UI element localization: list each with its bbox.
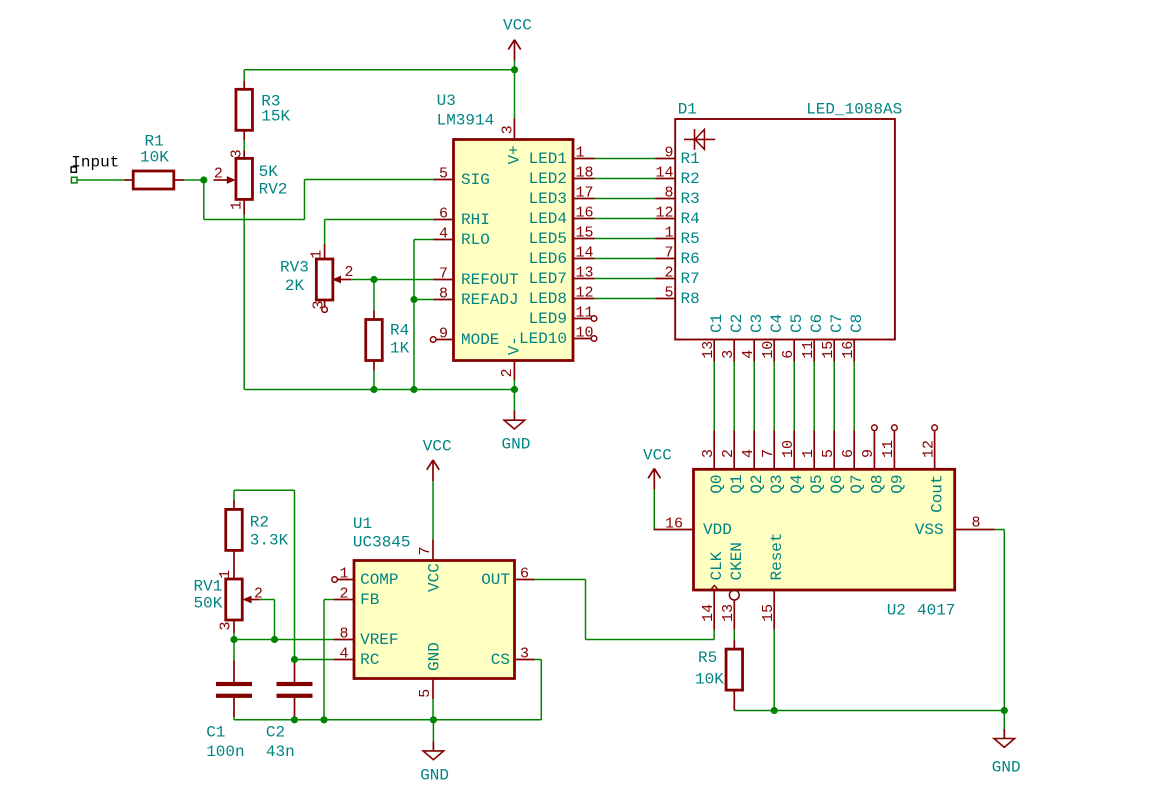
svg-text:6: 6 [520,565,529,582]
svg-text:2K: 2K [285,277,305,295]
svg-text:R2: R2 [250,514,269,532]
junction VCC/V+ [511,66,518,73]
svg-text:R5: R5 [698,649,717,667]
svg-text:4017: 4017 [917,602,955,620]
U2 pin 8 VSS [955,529,995,531]
svg-text:Q4: Q4 [788,474,806,493]
op-amp U1 UC3845 (PWM controller) [332,515,535,699]
power symbol VCC (top) [503,17,532,61]
D1 pin 7 R6 [656,244,700,268]
svg-text:VCC: VCC [643,447,672,465]
capacitor C2 (43n) [266,660,313,761]
svg-text:12: 12 [655,204,673,221]
svg-text:9: 9 [860,449,877,458]
svg-text:8: 8 [664,184,673,201]
svg-text:V+: V+ [506,145,524,164]
wire GND rail (upper) [244,389,514,391]
svg-text:3: 3 [228,149,245,158]
svg-text:CKEN: CKEN [728,542,746,580]
svg-text:GND: GND [426,642,444,671]
svg-text:C8: C8 [848,314,866,333]
U2 pin 4 Q2 [740,431,766,494]
svg-text:RV3: RV3 [280,259,309,277]
svg-text:10: 10 [760,341,777,359]
svg-text:7: 7 [664,244,673,261]
svg-text:VSS: VSS [915,521,944,539]
wire RV2 pin1 to GND rail [243,215,245,390]
op-amp U3 LM3914 (LED bar driver) [437,92,573,380]
svg-text:VCC: VCC [503,17,532,35]
svg-text:GND: GND [502,436,531,454]
wire RV1 wiper to VREF rail [259,600,274,640]
D1 pin 6 C5 [780,314,806,362]
wire C6 to U2 Q5 [813,362,815,431]
U2 pin 1 Q5 [800,431,826,494]
svg-text:2: 2 [664,264,673,281]
U3 pin 14 LED6 [529,244,595,268]
svg-text:OUT: OUT [481,571,510,589]
resistor R5 (10K) [695,630,743,711]
wire R1 to node A [184,179,204,181]
svg-text:43n: 43n [266,743,295,761]
svg-text:LED5: LED5 [529,230,567,248]
svg-text:Q2: Q2 [748,474,766,493]
junction VSS line/GND net [1001,707,1008,714]
wire LED7 to D1 [595,278,656,280]
wire VCC net top [244,61,514,119]
svg-text:UC3845: UC3845 [353,534,411,552]
D1 pin 5 R8 [656,284,700,308]
svg-text:VCC: VCC [423,438,452,456]
U3 pin 7 REFOUT [434,265,519,289]
D1 pin 10 C4 [760,314,786,362]
junction REFOUT/R4 [370,276,377,283]
U3 pin 10 LED10 [519,324,597,348]
U3 pin 16 LED4 [529,204,595,228]
svg-text:15K: 15K [261,108,290,126]
D1 pin 2 R7 [656,264,700,288]
D1 pin 9 R1 [656,144,700,168]
svg-text:R2: R2 [681,170,700,188]
svg-text:5: 5 [439,165,448,182]
wire LED6 to D1 [595,258,656,260]
wire LED8 to D1 [595,298,656,300]
D1 pin 13 C1 [700,314,726,362]
svg-text:15: 15 [820,341,837,359]
D1 pin 12 R4 [655,204,699,228]
wire RLO (pin 4) / REFADJ (pin 8) [414,240,434,390]
svg-text:10: 10 [780,440,797,458]
U3 pin 18 LED2 [529,164,595,188]
svg-text:R7: R7 [681,270,700,288]
ground symbol (bottom right) [992,729,1021,777]
svg-text:LM3914: LM3914 [437,112,495,130]
svg-text:4: 4 [339,645,348,662]
svg-text:RLO: RLO [461,231,490,249]
svg-text:1: 1 [339,565,348,582]
svg-text:1: 1 [576,144,585,161]
U3 pin 8 REFADJ [434,285,519,309]
svg-text:9: 9 [439,325,448,342]
svg-text:C7: C7 [828,314,846,333]
U2 pin 2 Q1 [720,431,746,494]
svg-text:LED_1088AS: LED_1088AS [806,101,902,119]
wire R2 top over to RC column [234,490,295,659]
svg-text:1: 1 [309,250,326,259]
wire LED4 to D1 [595,218,656,220]
svg-text:U1: U1 [353,515,372,533]
svg-text:14: 14 [700,604,717,622]
svg-text:3.3K: 3.3K [250,532,289,550]
U3 pin 4 RLO [434,225,490,249]
svg-text:VREF: VREF [360,631,398,649]
svg-text:5: 5 [417,689,434,698]
junction REFADJ [410,296,417,303]
resistor R2 (3.3K) [226,500,289,579]
svg-text:10K: 10K [695,671,724,689]
wire FB to ground rail [324,600,334,720]
junction V-/GND rail [511,386,518,393]
wire VCC to U2 VDD [653,490,655,530]
svg-text:R8: R8 [681,290,700,308]
U2 pin 14 CLK [713,590,715,630]
svg-text:COMP: COMP [360,571,398,589]
svg-text:1: 1 [228,201,245,210]
wire C3 to U2 Q2 [753,362,755,431]
svg-text:MODE: MODE [461,331,499,349]
svg-text:C2: C2 [728,314,746,333]
svg-text:RHI: RHI [461,211,490,229]
svg-text:10: 10 [576,324,594,341]
svg-text:R3: R3 [681,190,700,208]
svg-text:Q3: Q3 [768,474,786,493]
U2 pin 12 Cout [920,425,946,513]
svg-text:LED8: LED8 [529,290,567,308]
svg-text:R5: R5 [681,230,700,248]
resistor R4 (1K) [366,280,410,390]
svg-text:CLK: CLK [708,551,726,580]
svg-text:50K: 50K [194,595,223,613]
svg-text:8: 8 [972,515,981,532]
svg-text:5K: 5K [259,163,279,181]
U2 pin 16 VDD [654,529,694,531]
svg-text:R6: R6 [681,250,700,268]
U2 pin 11 Q9 [880,425,906,494]
svg-text:RV2: RV2 [259,181,288,199]
potentiometer RV2 (5K) [214,149,288,215]
U1 pin 8 VREF [334,639,354,641]
svg-text:Q5: Q5 [808,474,826,493]
junction RLO line/GND rail [410,386,417,393]
svg-text:4: 4 [740,449,757,458]
D1 pin 15 C7 [820,314,846,362]
wire OUT to U2 CLK [535,580,715,640]
svg-text:14: 14 [576,244,594,261]
U2 pin 13 CKEN [729,590,739,600]
svg-text:LED3: LED3 [529,190,567,208]
svg-text:12: 12 [920,440,937,458]
svg-text:C1: C1 [206,723,225,741]
U3 pin 13 LED7 [529,264,595,288]
svg-text:C3: C3 [748,314,766,333]
wire RHI (pin 6) to RV3 [325,220,434,245]
wire U1 GND pin to rail [432,699,434,741]
wire C1 to U2 Q0 [713,362,715,431]
svg-text:LED10: LED10 [519,330,567,348]
U3 pin 1 LED1 [529,144,595,168]
wire RC to C2 column [295,659,335,661]
U3 pin 12 LED8 [529,284,595,308]
wire R5 bottom / Reset / GND net [734,630,1004,711]
svg-text:LED7: LED7 [529,270,567,288]
svg-text:6: 6 [780,350,797,359]
svg-text:11: 11 [576,304,594,321]
U3 pin 17 LED3 [529,184,595,208]
svg-text:3: 3 [520,645,529,662]
D1 pin 1 R5 [656,224,700,248]
wire VREF rail [234,633,334,640]
svg-text:VDD: VDD [703,521,732,539]
svg-text:3: 3 [311,300,328,309]
wire C2 to U2 Q1 [733,362,735,431]
svg-text:C2: C2 [266,723,285,741]
svg-text:2: 2 [339,585,348,602]
D1 pin 16 C8 [840,314,866,362]
pin 2 V- [513,361,515,381]
U2 pin 7 Q3 [760,431,786,494]
svg-text:15: 15 [576,224,594,241]
svg-text:R1: R1 [681,150,700,168]
wire node A to SIG (pin 5) [204,180,434,220]
svg-text:1: 1 [800,449,817,458]
potentiometer RV1 (50K) [194,570,264,633]
svg-text:Q7: Q7 [848,474,866,493]
svg-text:Input: Input [71,154,119,172]
junction C2/ground rail [291,716,298,723]
svg-text:18: 18 [576,164,594,181]
wire C7 to U2 Q6 [833,362,835,431]
svg-text:RC: RC [360,651,379,669]
svg-text:LED4: LED4 [529,210,567,228]
U3 pin 15 LED5 [529,224,595,248]
svg-text:11: 11 [880,440,897,458]
svg-text:100n: 100n [206,743,244,761]
svg-text:C5: C5 [788,314,806,333]
svg-text:C4: C4 [768,314,786,333]
svg-text:16: 16 [840,341,857,359]
svg-text:1K: 1K [390,340,410,358]
svg-text:Cout: Cout [929,474,947,512]
U1 pin 7 VCC [432,540,434,561]
svg-text:3: 3 [500,125,517,134]
junction RV1 wiper/VREF [271,636,278,643]
svg-text:3: 3 [720,350,737,359]
svg-text:4: 4 [439,225,448,242]
wire ground rail (bottom) [234,717,541,719]
svg-text:LED6: LED6 [529,250,567,268]
LED matrix D1 LED_1088AS [675,101,902,340]
svg-text:16: 16 [576,204,594,221]
junction RC/C2 column [291,656,298,663]
svg-text:9: 9 [664,144,673,161]
svg-text:12: 12 [576,284,594,301]
svg-text:11: 11 [800,341,817,359]
svg-text:Q1: Q1 [728,474,746,493]
junction RV1 pin3/C1/VREF [230,636,237,643]
U1 pin 6 OUT [515,579,535,581]
junction node A (R1/RV2 wiper) [200,176,207,183]
svg-text:Q0: Q0 [708,474,726,493]
power symbol VCC (U1) [423,438,452,482]
svg-text:7: 7 [760,449,777,458]
wire CS to ground rail [535,660,542,720]
resistor R1 (10K) [124,133,184,190]
svg-text:REFADJ: REFADJ [461,291,519,309]
wire C8 to U2 Q7 [853,362,855,431]
svg-text:Q8: Q8 [868,474,886,493]
power symbol VCC (U2) [643,447,672,490]
U3 pin 5 SIG [434,165,490,189]
U2 pin 3 Q0 [700,431,726,494]
diode symbol inside D1 [684,138,715,140]
wire LED2 to D1 [595,178,656,180]
svg-text:LED1: LED1 [529,150,567,168]
U2 pin 5 Q6 [820,431,846,494]
svg-text:FB: FB [360,591,379,609]
wire C4 to U2 Q3 [773,362,775,431]
svg-text:7: 7 [439,265,448,282]
svg-text:5: 5 [820,449,837,458]
svg-text:GND: GND [992,759,1021,777]
wire R3 to RV2 [243,140,245,150]
U3 pin 6 RHI [434,205,490,229]
svg-text:REFOUT: REFOUT [461,271,519,289]
svg-text:LED2: LED2 [529,170,567,188]
U1 pin 2 FB [334,599,354,601]
ground symbol (below U3) [502,411,531,454]
svg-text:17: 17 [576,184,594,201]
svg-text:Reset: Reset [768,532,786,580]
wire VSS to GND [995,530,1005,730]
resistor R3 (15K) [236,81,291,141]
svg-text:8: 8 [339,625,348,642]
U1 pin 5 GND [432,679,434,700]
svg-text:2: 2 [499,368,516,377]
svg-text:C6: C6 [808,314,826,333]
svg-text:5: 5 [664,284,673,301]
junction Reset/R5 net [771,707,778,714]
wire LED1 to D1 [595,158,656,160]
capacitor C1 (100n) [206,640,252,761]
svg-text:R4: R4 [390,322,409,340]
svg-text:6: 6 [840,449,857,458]
svg-text:CS: CS [491,651,510,669]
svg-text:3: 3 [700,449,717,458]
U2 pin 15 Reset [773,590,775,630]
ground symbol (below U1) [420,741,449,784]
U2 pin 10 Q4 [780,431,806,494]
U3 pin 9 MODE [430,325,499,349]
U1 pin 4 RC [334,659,354,661]
svg-text:14: 14 [655,164,673,181]
U1 pin 3 CS [515,659,535,661]
wire LED3 to D1 [595,198,656,200]
svg-text:15: 15 [760,604,777,622]
svg-text:2: 2 [345,264,354,281]
svg-text:2: 2 [214,166,223,183]
svg-text:R4: R4 [681,210,700,228]
node Input (net label) [71,154,119,183]
U3 pin 11 LED9 [529,304,597,328]
svg-text:4: 4 [740,350,757,359]
svg-text:D1: D1 [678,101,697,119]
D1 pin 8 R3 [656,184,700,208]
svg-text:16: 16 [665,516,683,533]
wire C5 to U2 Q4 [793,362,795,431]
U1 pin 1 COMP [332,577,338,583]
svg-text:Q6: Q6 [828,474,846,493]
svg-text:SIG: SIG [461,171,490,189]
wire Input to R1 [77,179,124,181]
svg-text:C1: C1 [708,314,726,333]
wire LED5 to D1 [595,238,656,240]
wire VCC to U1 pin 7 [432,481,434,540]
svg-text:6: 6 [439,205,448,222]
svg-text:8: 8 [439,285,448,302]
svg-text:2: 2 [720,449,737,458]
potentiometer RV3 (2K) [280,244,354,312]
junction FB line/ground rail [320,716,327,723]
U2 pin 6 Q7 [840,431,866,494]
svg-text:1: 1 [664,224,673,241]
svg-text:13: 13 [576,264,594,281]
D1 pin 4 C3 [740,314,766,362]
wire REFOUT (pin 7) [351,279,433,281]
junction R4/GND rail [370,386,377,393]
svg-text:GND: GND [420,767,449,785]
D1 pin 14 R2 [655,164,699,188]
D1 pin 3 C2 [720,314,746,362]
counter U2 4017 (decade counter) [654,469,995,630]
wire V- to GND [513,380,515,410]
pin 3 V+ [513,118,515,139]
svg-text:U3: U3 [437,92,456,110]
svg-text:VCC: VCC [426,563,444,592]
svg-text:U2: U2 [887,602,906,620]
svg-text:7: 7 [417,546,434,555]
svg-text:LED9: LED9 [529,310,567,328]
U2 pin 9 Q8 [860,425,886,494]
svg-text:3: 3 [217,621,234,630]
svg-text:10K: 10K [140,149,169,167]
svg-text:Q9: Q9 [888,474,906,493]
svg-text:13: 13 [700,341,717,359]
svg-text:13: 13 [720,604,737,622]
svg-text:RV1: RV1 [194,578,223,596]
junction U1 GND/rail [430,716,437,723]
D1 pin 11 C6 [800,314,826,362]
